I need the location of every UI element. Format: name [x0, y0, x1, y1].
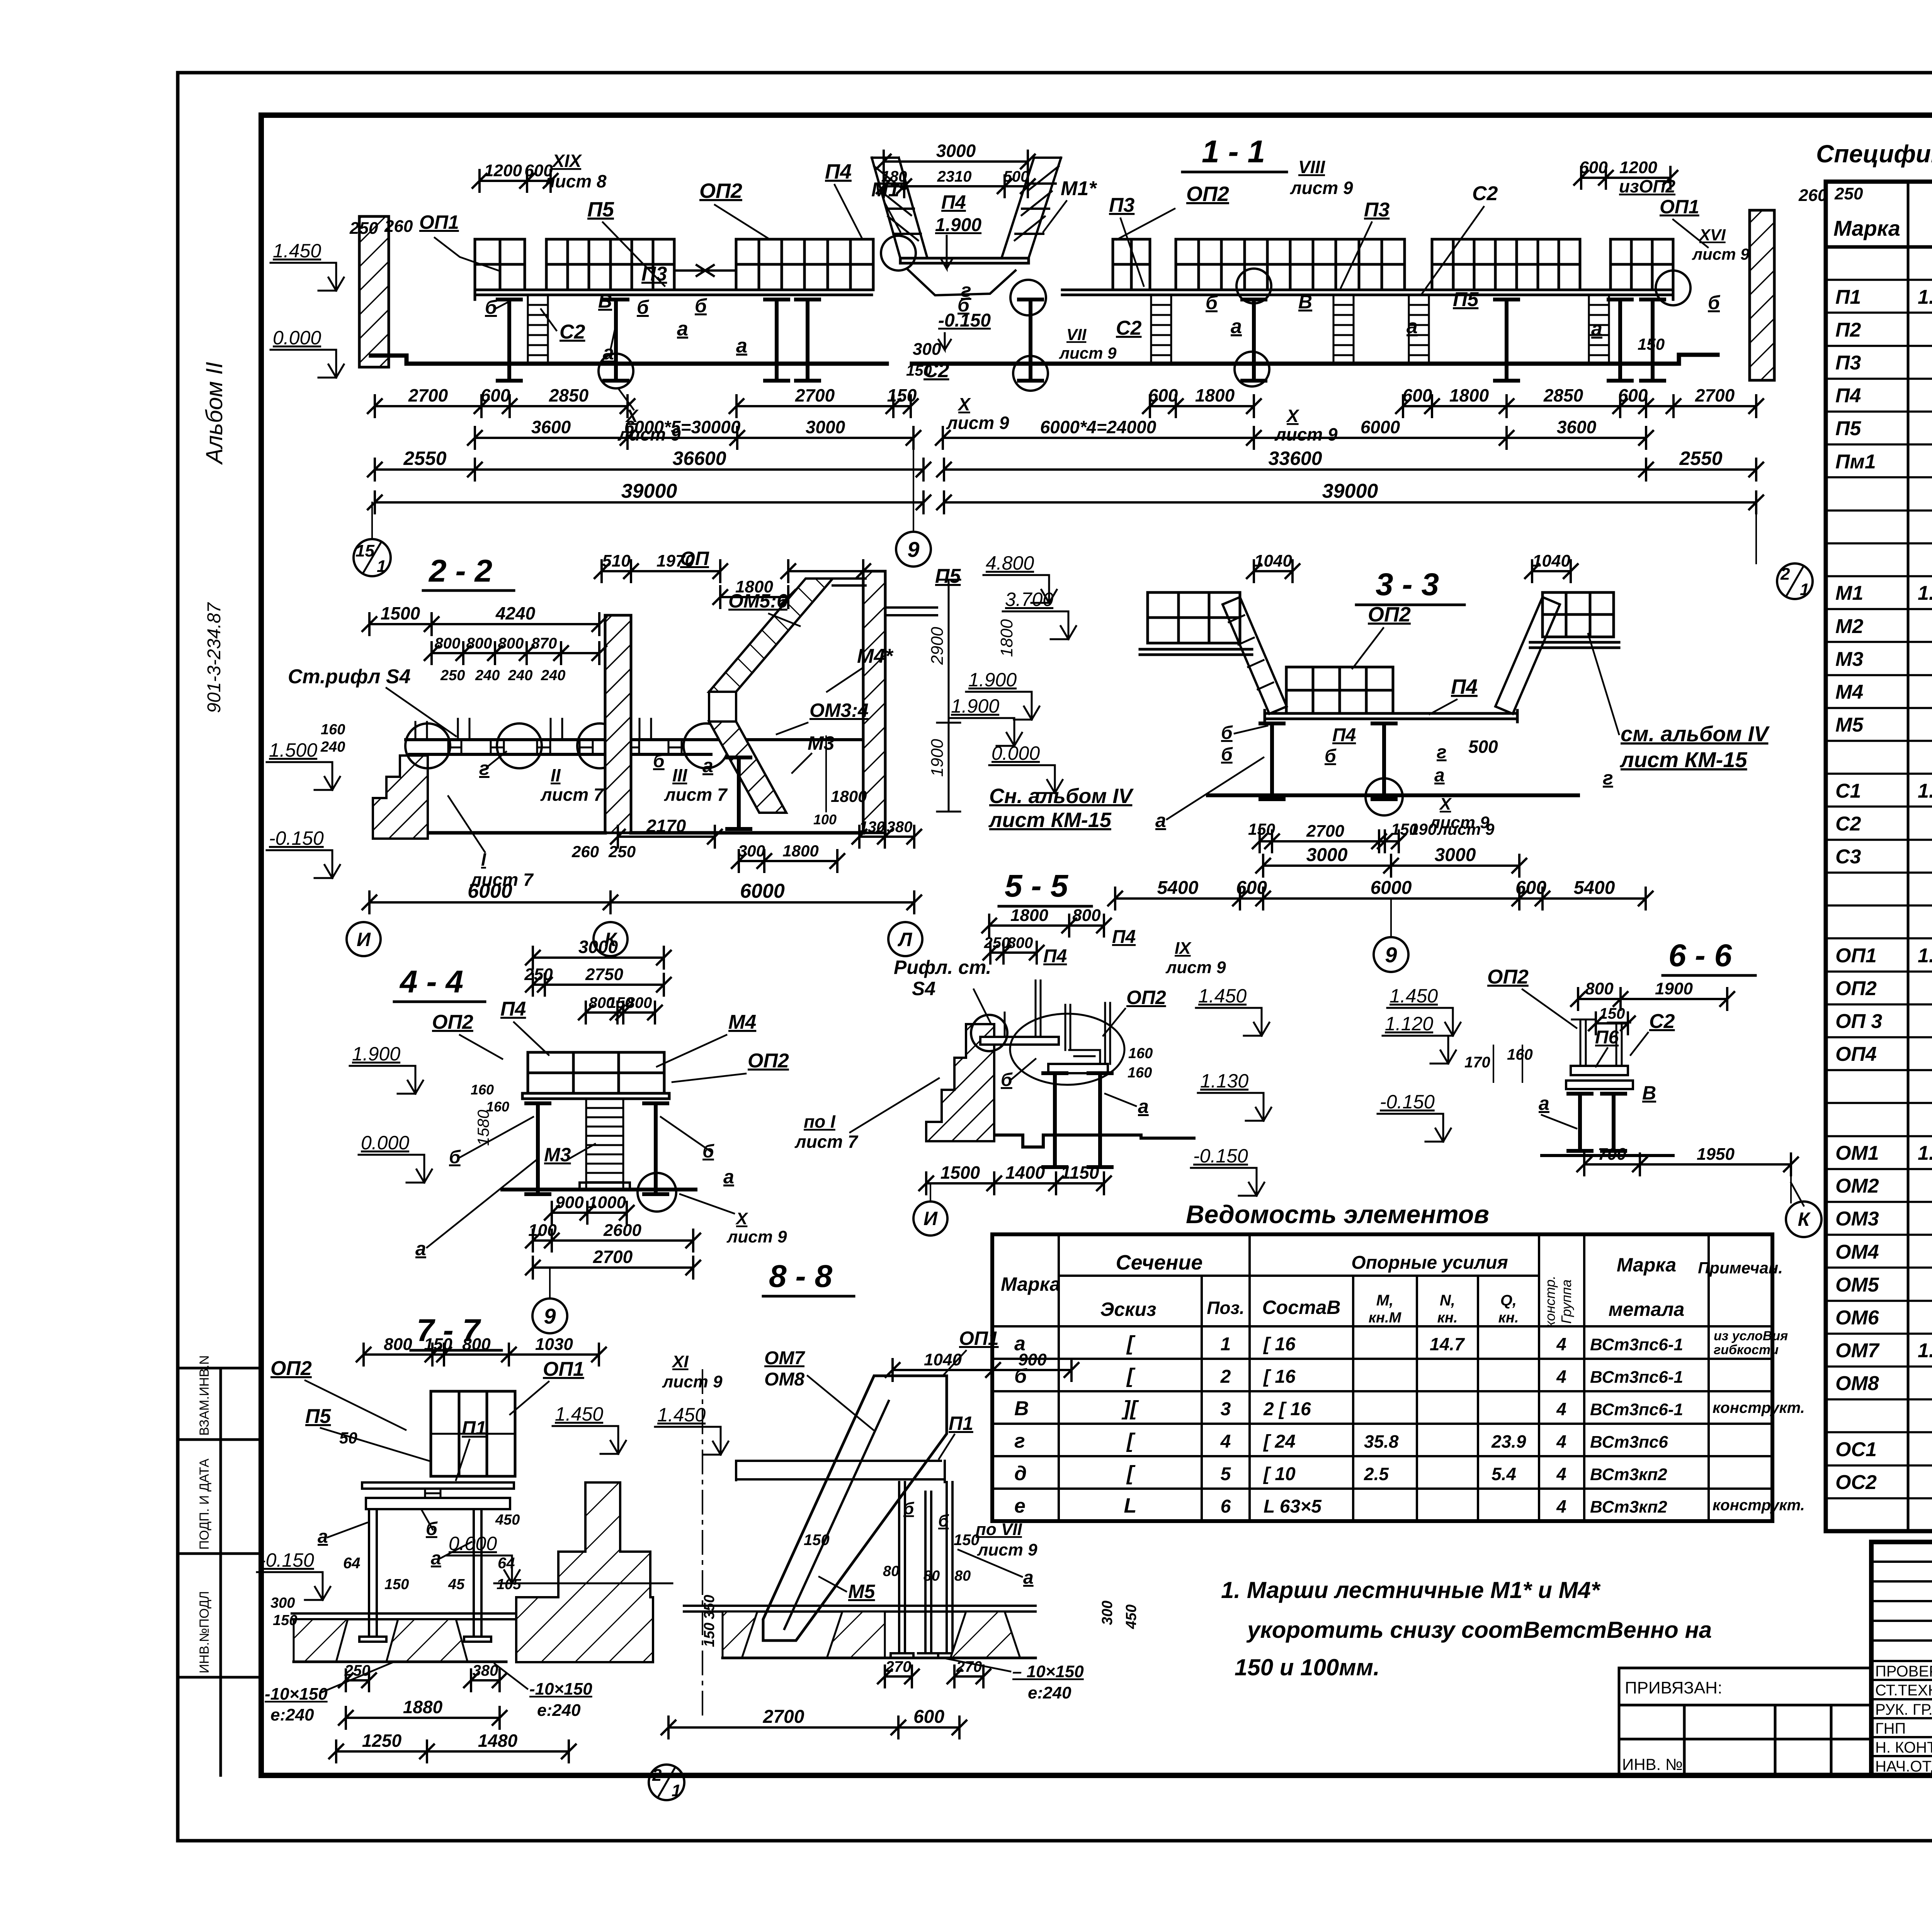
- svg-text:100: 100: [813, 812, 837, 827]
- svg-text:240: 240: [541, 667, 565, 684]
- svg-text:45: 45: [448, 1576, 465, 1593]
- 2-2 bottom dims: [611, 826, 722, 848]
- svg-text:IX: IX: [1175, 939, 1192, 958]
- svg-text:2700: 2700: [1695, 385, 1735, 405]
- 1-1 posts: [498, 300, 521, 381]
- svg-text:1.450: 1.450: [1198, 985, 1247, 1007]
- svg-text:6000: 6000: [468, 880, 512, 902]
- svg-text:4.800: 4.800: [986, 552, 1034, 574]
- svg-text:С2: С2: [1116, 317, 1142, 339]
- 4-4 railing: [528, 1052, 664, 1093]
- svg-text:6000: 6000: [1371, 878, 1412, 898]
- svg-text:Поз.: Поз.: [1207, 1298, 1244, 1318]
- svg-text:М3: М3: [1835, 648, 1863, 671]
- 1-1 dim row 1 right: [1396, 395, 1763, 417]
- svg-text:800: 800: [462, 1335, 491, 1354]
- svg-text:1.450.3-3.1 3.1.0.1.0 -03: 1.450.3-3.1 3.1.0.1.0 -03: [1918, 780, 1932, 802]
- svg-text:1500: 1500: [940, 1162, 980, 1183]
- svg-text:5.4: 5.4: [1492, 1464, 1516, 1484]
- svg-text:1800: 1800: [1449, 385, 1489, 405]
- svg-text:5400: 5400: [1157, 878, 1199, 898]
- svg-text:лист 9: лист 9: [1290, 178, 1353, 198]
- svg-text:П5: П5: [1453, 288, 1479, 311]
- svg-text:1.450.3-3.1 2.1.1.0.0 - 01: 1.450.3-3.1 2.1.1.0.0 - 01: [1918, 286, 1932, 308]
- svg-text:лист 8: лист 8: [543, 171, 607, 191]
- svg-text:36600: 36600: [672, 448, 726, 469]
- 2-2 axis circles: [347, 922, 381, 956]
- svg-text:П5: П5: [305, 1405, 331, 1428]
- svg-text:3: 3: [1221, 1399, 1231, 1419]
- svg-text:б: б: [903, 1499, 915, 1518]
- svg-text:160: 160: [1507, 1046, 1533, 1063]
- svg-text:1.450: 1.450: [273, 240, 321, 262]
- svg-text:X: X: [957, 394, 971, 414]
- svg-text:кн.: кн.: [1498, 1310, 1519, 1326]
- svg-text:XIX: XIX: [551, 151, 582, 171]
- svg-text:160: 160: [321, 722, 345, 738]
- svg-text:е:240: е:240: [270, 1705, 314, 1724]
- svg-text:800: 800: [1585, 979, 1614, 998]
- svg-text:1 - 1: 1 - 1: [1202, 134, 1265, 169]
- svg-text:констр.: констр.: [1542, 1276, 1558, 1327]
- svg-text:1.450.3-3.1 1.1.1.0.0 - 01.: 1.450.3-3.1 1.1.1.0.0 - 01.: [1918, 582, 1932, 604]
- 1-1 dim row 1 mid: [730, 395, 918, 417]
- svg-text:450: 450: [1123, 1605, 1139, 1629]
- svg-text:1800: 1800: [997, 619, 1016, 657]
- svg-text:-10×150: -10×150: [265, 1685, 328, 1704]
- svg-text:800: 800: [498, 635, 524, 652]
- svg-text:ОП2: ОП2: [270, 1357, 312, 1380]
- svg-text:XI: XI: [671, 1352, 689, 1371]
- svg-text:Марка: Марка: [1001, 1273, 1060, 1295]
- svg-text:а: а: [1014, 1333, 1026, 1355]
- svg-text:ОМ7: ОМ7: [1835, 1339, 1880, 1362]
- svg-text:1800: 1800: [1010, 906, 1048, 925]
- 5-5 ground: [997, 1135, 1194, 1147]
- 5-5 top dims: [982, 915, 1111, 936]
- svg-text:160: 160: [471, 1082, 494, 1098]
- 1-1 left wall hatched: [359, 216, 389, 367]
- svg-text:П4: П4: [1332, 725, 1356, 745]
- svg-text:конструкт.: конструкт.: [1713, 1497, 1805, 1514]
- svg-text:ОС2: ОС2: [1835, 1471, 1877, 1494]
- svg-text:350: 350: [701, 1595, 718, 1619]
- svg-text:6000: 6000: [1361, 417, 1400, 437]
- svg-text:лист 7: лист 7: [664, 785, 728, 805]
- svg-text:S4: S4: [912, 978, 935, 999]
- 3-3 center deck: [1265, 710, 1517, 722]
- svg-text:ИНВ. №: ИНВ. №: [1622, 1755, 1683, 1773]
- 5-5 axis circle: [930, 1183, 931, 1201]
- svg-text:М1: М1: [1835, 582, 1863, 604]
- svg-text:1880: 1880: [403, 1697, 443, 1717]
- svg-text:1040: 1040: [1254, 551, 1292, 570]
- 2-2 right vertical dims: [937, 580, 960, 812]
- svg-text:[: [: [1126, 1429, 1136, 1452]
- svg-text:1000: 1000: [588, 1193, 626, 1212]
- svg-text:4: 4: [1556, 1367, 1566, 1387]
- 2-2 deck node circles: [405, 723, 450, 768]
- svg-text:Сечение: Сечение: [1116, 1251, 1203, 1274]
- svg-text:П2: П2: [1835, 319, 1861, 341]
- spec table row lines: [1826, 280, 1932, 1498]
- svg-text:VIII: VIII: [1298, 157, 1325, 177]
- svg-text:РУК. ГР.: РУК. ГР.: [1875, 1701, 1932, 1718]
- svg-text:150: 150: [1638, 335, 1665, 353]
- svg-text:1.900: 1.900: [352, 1043, 400, 1065]
- svg-text:3000: 3000: [578, 937, 618, 957]
- 2-2 top landing deck: [833, 579, 866, 585]
- svg-text:1800: 1800: [782, 842, 818, 860]
- svg-text:– 10×150: – 10×150: [1012, 1662, 1084, 1681]
- svg-text:300: 300: [738, 842, 765, 860]
- 3-3 dims: [1253, 831, 1406, 852]
- 1-1 gap arrows: [674, 265, 736, 276]
- svg-text:М5: М5: [848, 1581, 876, 1602]
- svg-text:250: 250: [440, 667, 465, 684]
- svg-text:метала: метала: [1609, 1299, 1685, 1320]
- svg-text:150: 150: [273, 1612, 297, 1629]
- svg-text:П4: П4: [1112, 927, 1136, 947]
- 7-7 hatched ground: [294, 1619, 468, 1662]
- svg-text:[ 10: [ 10: [1263, 1464, 1296, 1484]
- svg-text:1950: 1950: [1697, 1145, 1735, 1164]
- svg-text:ПРИВЯЗАН:: ПРИВЯЗАН:: [1625, 1678, 1722, 1697]
- element list frame: [992, 1234, 1772, 1521]
- 8-8 posts: [899, 1482, 952, 1653]
- svg-text:2550: 2550: [1679, 448, 1722, 469]
- svg-text:2: 2: [1780, 565, 1790, 584]
- svg-text:ВСт3пс6-1: ВСт3пс6-1: [1590, 1368, 1683, 1387]
- 8-8 vertical axis dashed: [702, 1370, 703, 1716]
- svg-text:Марка: Марка: [1833, 216, 1900, 240]
- svg-text:39000: 39000: [621, 480, 677, 502]
- svg-text:600: 600: [1148, 385, 1178, 405]
- svg-text:д: д: [1014, 1462, 1027, 1485]
- svg-text:250: 250: [1834, 184, 1863, 203]
- svg-text:300: 300: [913, 340, 941, 359]
- 5-5 concrete steps hatched: [926, 1024, 994, 1141]
- svg-text:150: 150: [887, 385, 917, 405]
- 7-7 posts double: [369, 1509, 481, 1637]
- svg-text:ОП2: ОП2: [1126, 987, 1166, 1008]
- svg-text:150: 150: [384, 1576, 409, 1593]
- svg-text:1900: 1900: [928, 739, 947, 777]
- svg-text:5 - 5: 5 - 5: [1005, 868, 1068, 904]
- 4-4 bottom dims: [545, 1202, 634, 1224]
- svg-text:ПОДП. И ДАТА: ПОДП. И ДАТА: [197, 1458, 212, 1550]
- 1-1 dim 3000: [877, 151, 1035, 172]
- svg-text:ОМ8: ОМ8: [1835, 1372, 1879, 1395]
- svg-text:лист 9: лист 9: [1165, 958, 1226, 977]
- 2-2 deck beam: [406, 740, 862, 754]
- svg-text:260: 260: [1798, 186, 1827, 205]
- 3-3 left upper platform: [1148, 592, 1240, 643]
- svg-text:М,: М,: [1376, 1292, 1393, 1309]
- svg-text:600: 600: [1236, 878, 1267, 898]
- 3-3 ground line: [1208, 793, 1578, 797]
- spec table header row line: [1826, 245, 1932, 249]
- svg-text:450: 450: [495, 1512, 520, 1528]
- svg-text:1: 1: [1221, 1334, 1231, 1355]
- svg-text:800: 800: [1072, 906, 1101, 925]
- svg-text:3000: 3000: [1306, 845, 1348, 865]
- 6-6 posts: [1568, 1094, 1592, 1151]
- 1-1 ladders C2: [528, 295, 548, 364]
- 1-1 dim row 3: [368, 459, 930, 480]
- svg-text:В: В: [1014, 1397, 1029, 1420]
- svg-text:600: 600: [1579, 158, 1608, 177]
- svg-text:2: 2: [1220, 1367, 1231, 1387]
- 4-4 deck: [522, 1093, 669, 1099]
- svg-text:N,: N,: [1440, 1292, 1455, 1309]
- svg-text:М2: М2: [1835, 615, 1863, 638]
- svg-text:250: 250: [608, 842, 636, 861]
- svg-text:В: В: [1642, 1082, 1656, 1104]
- svg-text:а: а: [415, 1238, 426, 1259]
- svg-text:-0.150: -0.150: [259, 1549, 314, 1571]
- 1-1 node circles: [881, 236, 916, 271]
- svg-text:3.700: 3.700: [1005, 589, 1053, 610]
- 8-8 floor lines: [684, 1606, 1036, 1612]
- svg-text:б: б: [938, 1511, 949, 1530]
- svg-text:из услоВия: из услоВия: [1714, 1329, 1788, 1343]
- svg-text:ОП2: ОП2: [432, 1011, 473, 1033]
- svg-text:1200: 1200: [1619, 158, 1657, 177]
- svg-text:250: 250: [984, 934, 1010, 951]
- margin cells: [178, 1368, 261, 1775]
- svg-text:лист 7: лист 7: [540, 785, 604, 805]
- svg-text:4 - 4: 4 - 4: [399, 964, 463, 999]
- svg-text:9: 9: [544, 1304, 556, 1328]
- 5-5 bottom dims: [919, 1173, 1111, 1194]
- svg-text:380: 380: [473, 1662, 498, 1679]
- 2-2 left levels: [267, 762, 332, 790]
- svg-text:ОП1: ОП1: [543, 1358, 584, 1380]
- 6-6 ground: [1542, 1154, 1673, 1157]
- svg-text:][: ][: [1121, 1397, 1139, 1420]
- 3-3 posts: [1260, 723, 1284, 799]
- 1-1 dim row 4: [368, 492, 930, 513]
- svg-text:по I: по I: [804, 1111, 836, 1132]
- svg-text:ОМ2: ОМ2: [1835, 1175, 1879, 1197]
- svg-text:Н. КОНТР: Н. КОНТР: [1875, 1739, 1932, 1756]
- svg-text:X: X: [1286, 406, 1299, 426]
- 2-2 P5 deck at wall: [885, 608, 937, 615]
- svg-text:6000*5=30000: 6000*5=30000: [624, 417, 741, 437]
- 2-2 post a: [727, 757, 750, 829]
- 5-5 posts: [1043, 1073, 1066, 1167]
- svg-text:4: 4: [1556, 1431, 1566, 1452]
- svg-text:ОМ3: ОМ3: [1835, 1208, 1879, 1230]
- svg-text:2850: 2850: [549, 385, 589, 405]
- svg-text:1500: 1500: [381, 603, 420, 623]
- 1-1 dim 1200 600: [473, 170, 558, 192]
- svg-text:ОМ3:4: ОМ3:4: [810, 699, 869, 721]
- 1-1 left stair flight band: [872, 158, 927, 258]
- svg-text:лист 9: лист 9: [1274, 424, 1338, 444]
- svg-text:2700: 2700: [763, 1707, 804, 1727]
- 8-8 top dims: [886, 1359, 1078, 1381]
- 1-1 right wall hatched: [1750, 210, 1774, 380]
- svg-text:260: 260: [571, 842, 599, 861]
- svg-text:1150: 1150: [1061, 1162, 1099, 1183]
- svg-text:150: 150: [1248, 820, 1275, 838]
- svg-text:лист 9: лист 9: [946, 413, 1009, 433]
- svg-text:С2: С2: [560, 321, 585, 343]
- svg-text:П5: П5: [1835, 417, 1861, 440]
- svg-text:1. Марши лестничные М1* и: 1. Марши лестничные М1* и М4*: [1221, 1577, 1601, 1603]
- svg-text:а: а: [1155, 810, 1166, 831]
- svg-text:ОП4: ОП4: [1835, 1043, 1877, 1065]
- svg-text:С3: С3: [1835, 846, 1861, 868]
- 2-2 top dims: [362, 613, 606, 635]
- 1-1 center post: [1019, 300, 1042, 381]
- 3-3 center platform railing: [1286, 667, 1393, 713]
- svg-text:260: 260: [384, 217, 413, 236]
- svg-text:б: б: [637, 296, 650, 318]
- 6-6 axis circle: [1790, 1164, 1792, 1203]
- 5-5 detail bubbles: [971, 1015, 1007, 1051]
- svg-text:В: В: [598, 290, 612, 312]
- 1-1 center support beam trapezoid: [908, 269, 1015, 295]
- svg-text:1900: 1900: [1655, 979, 1693, 998]
- svg-text:б: б: [1325, 746, 1337, 766]
- svg-text:П1: П1: [462, 1417, 486, 1439]
- svg-text:П3: П3: [1835, 352, 1861, 374]
- svg-text:2 [ 16: 2 [ 16: [1263, 1399, 1311, 1419]
- svg-text:б: б: [702, 1141, 714, 1162]
- svg-text:14.7: 14.7: [1430, 1334, 1465, 1354]
- 1-1 deck left: [475, 285, 872, 300]
- svg-text:Пм1: Пм1: [1835, 451, 1876, 473]
- 1-1 level 0.000: [270, 350, 336, 378]
- 1-1 center raised platform deck: [900, 258, 1029, 263]
- svg-text:150: 150: [1599, 1005, 1625, 1022]
- svg-text:250: 250: [344, 1662, 371, 1679]
- svg-text:[: [: [1126, 1462, 1136, 1485]
- 2-2 right wall hatched: [863, 571, 885, 833]
- svg-text:П3: П3: [641, 263, 667, 285]
- svg-text:4: 4: [1556, 1334, 1566, 1354]
- svg-text:б: б: [1221, 744, 1233, 765]
- svg-text:4: 4: [1556, 1399, 1566, 1419]
- 2-2 lower stair flight hatched: [709, 722, 786, 813]
- 4-4 levels: [350, 1066, 415, 1094]
- svg-text:ОМ7: ОМ7: [764, 1348, 805, 1368]
- svg-text:II: II: [551, 765, 561, 785]
- svg-text:б: б: [695, 295, 707, 317]
- svg-text:б: б: [1206, 292, 1218, 313]
- svg-text:1.450.3-3.1 5.1.0.1.0: 1.450.3-3.1 5.1.0.1.0: [1918, 945, 1932, 967]
- svg-text:VII: VII: [1066, 325, 1087, 344]
- 6-6 bottom dims: [1577, 1154, 1798, 1175]
- svg-text:а: а: [723, 1166, 734, 1188]
- svg-text:М4: М4: [728, 1011, 756, 1033]
- 6-6 top dims: [1571, 988, 1734, 1010]
- svg-text:П5: П5: [587, 198, 614, 221]
- svg-text:ОМ5:6: ОМ5:6: [728, 590, 788, 612]
- svg-text:800: 800: [466, 635, 492, 652]
- svg-text:лист 9: лист 9: [662, 1372, 723, 1391]
- svg-text:П5: П5: [935, 565, 961, 587]
- svg-text:б: б: [1221, 723, 1233, 743]
- svg-text:лист 9: лист 9: [977, 1540, 1037, 1559]
- svg-text:1200: 1200: [484, 161, 522, 180]
- svg-text:ОМ8: ОМ8: [764, 1369, 804, 1390]
- svg-text:1800: 1800: [831, 787, 867, 805]
- svg-text:Эскиз: Эскиз: [1100, 1299, 1156, 1320]
- svg-text:П4: П4: [500, 998, 526, 1020]
- svg-text:4240: 4240: [495, 603, 536, 623]
- 1-1 railing segments: [475, 239, 525, 290]
- svg-text:1.450: 1.450: [555, 1403, 603, 1425]
- svg-text:Л: Л: [898, 929, 913, 950]
- svg-text:1.900: 1.900: [935, 215, 981, 235]
- svg-text:М4*: М4*: [857, 645, 894, 667]
- svg-text:ОМ6: ОМ6: [1835, 1307, 1879, 1329]
- svg-text:0.000: 0.000: [992, 742, 1040, 764]
- svg-text:160: 160: [486, 1099, 509, 1115]
- svg-text:б: б: [485, 296, 498, 318]
- title block frame: [1871, 1542, 1932, 1775]
- svg-text:г: г: [1014, 1430, 1025, 1452]
- svg-text:500: 500: [1468, 737, 1498, 757]
- svg-text:ОП1: ОП1: [1660, 196, 1699, 218]
- svg-text:2700: 2700: [795, 385, 835, 405]
- svg-text:901-3-234.87: 901-3-234.87: [204, 602, 224, 713]
- 5-5 rail stubs: [1005, 980, 1110, 1064]
- svg-text:-10×150: -10×150: [529, 1680, 592, 1698]
- svg-text:СТ.ТЕХН.: СТ.ТЕХН.: [1875, 1682, 1932, 1699]
- svg-text:-0.150: -0.150: [1380, 1091, 1435, 1113]
- svg-text:1400: 1400: [1005, 1162, 1045, 1183]
- svg-text:1800: 1800: [1195, 385, 1235, 405]
- svg-text:гибкости: гибкости: [1714, 1343, 1779, 1357]
- 4-4 ground: [502, 1188, 696, 1191]
- 7-7 deck beams: [362, 1482, 514, 1509]
- 3-3 right upper platform: [1543, 592, 1614, 637]
- svg-text:1.450.3-3.1 4.1.1.1.0: 1.450.3-3.1 4.1.1.1.0: [1918, 1142, 1932, 1164]
- svg-text:6000: 6000: [740, 880, 785, 902]
- svg-text:160: 160: [1128, 1065, 1152, 1081]
- svg-text:1: 1: [377, 557, 386, 576]
- 4-4 top dims: [526, 947, 671, 968]
- svg-text:-0.150: -0.150: [1193, 1145, 1248, 1167]
- svg-text:кн.: кн.: [1437, 1310, 1458, 1326]
- svg-text:ОП1: ОП1: [1835, 945, 1877, 967]
- svg-text:1040: 1040: [1532, 551, 1570, 570]
- svg-text:2850: 2850: [1543, 385, 1583, 405]
- 3-3 left stair: [1223, 597, 1287, 714]
- 2-2 railing stubs above deck: [415, 719, 651, 740]
- svg-text:г: г: [479, 757, 490, 779]
- svg-text:1.450: 1.450: [657, 1404, 706, 1426]
- svg-text:ПРОВЕР.: ПРОВЕР.: [1875, 1663, 1932, 1680]
- 8-8 top rail: [736, 1461, 945, 1482]
- svg-text:лист 9: лист 9: [1692, 245, 1750, 263]
- 7-7 bottom dims: [339, 1670, 376, 1691]
- svg-text:80: 80: [883, 1563, 899, 1579]
- svg-text:4: 4: [1556, 1496, 1566, 1516]
- svg-text:2 - 2: 2 - 2: [428, 553, 492, 589]
- svg-text:1.500: 1.500: [269, 739, 317, 761]
- svg-text:500: 500: [1003, 168, 1029, 185]
- svg-text:510: 510: [602, 551, 631, 570]
- svg-text:ОП2: ОП2: [1835, 977, 1877, 1000]
- svg-text:III: III: [672, 765, 688, 785]
- svg-text:М4: М4: [1835, 681, 1863, 703]
